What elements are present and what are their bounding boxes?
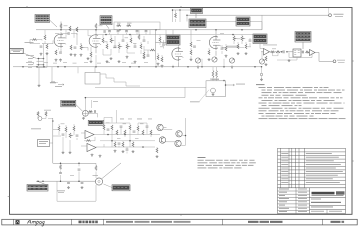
- wire heater res: [56, 81, 58, 83]
- resistor R6: [69, 26, 71, 31]
- junction reverb run: [172, 9, 174, 11]
- wire cathode V1A: [59, 48, 62, 52]
- wire return feed: [50, 130, 62, 144]
- wire stubs fx cluster: [53, 124, 157, 150]
- Ampeg logo glyph: [16, 220, 20, 224]
- wire speaker line: [187, 14, 329, 16]
- wire stubs heater row: [96, 55, 224, 67]
- capacitor C25 fx: [118, 143, 121, 144]
- junction jack 4: [43, 64, 45, 66]
- ground fx 6: [132, 150, 135, 153]
- resistor R18: [140, 44, 142, 49]
- junction output 2: [286, 51, 288, 53]
- value label fx 5: [117, 137, 121, 140]
- capacitor C9: [143, 40, 146, 41]
- wire speaker drop: [186, 15, 188, 21]
- capacitor C6 mid: [114, 46, 117, 47]
- wire stubs input stage: [45, 30, 91, 51]
- value label row 6: [97, 62, 101, 65]
- label jack text 2: [26, 61, 34, 64]
- fx riser marks 3: [137, 118, 142, 121]
- value label output: [272, 48, 276, 51]
- label box TUBE V2: [166, 35, 180, 45]
- resistor R13 reverb feed: [175, 13, 177, 18]
- triode V2A: [172, 48, 181, 60]
- value label row 5: [84, 61, 88, 64]
- label box REVERB TANK: [191, 8, 203, 14]
- legend text block: [198, 157, 256, 168]
- ground extra B: [143, 56, 146, 59]
- value label row 7: [106, 61, 110, 64]
- junction din: [52, 120, 54, 122]
- triode V4 half: [211, 88, 216, 93]
- ground heater A: [38, 84, 41, 87]
- junction heater 0: [22, 66, 24, 68]
- resistor R52: [306, 51, 309, 53]
- wire vertical feed V2: [155, 30, 157, 60]
- capacitor C27 interstage: [108, 31, 111, 32]
- value label row 10: [144, 61, 148, 64]
- fx riser marks: [120, 118, 124, 121]
- resistor R49: [271, 51, 275, 53]
- resistor R34: [65, 127, 67, 132]
- wire footswitch aux: [91, 100, 93, 108]
- resistor R54 fx: [122, 142, 124, 147]
- junction heater row dot 2: [64, 66, 66, 68]
- wire tank pointer: [104, 184, 113, 188]
- resistor R38: [111, 125, 113, 130]
- chassis box jacks: [114, 22, 160, 30]
- wire J1 pointer: [23, 53, 36, 58]
- wire output stubs: [273, 52, 298, 60]
- resistor R26 cathode V3: [208, 50, 210, 55]
- label box POWER SUPPLY: [27, 185, 48, 192]
- resistor R11 jack network: [117, 25, 122, 27]
- triode V1A: [54, 34, 63, 46]
- wire dropper: [61, 163, 80, 181]
- callout box J1 label: [10, 48, 23, 53]
- tank label text: [93, 174, 99, 177]
- panel pot REVERB: [212, 57, 217, 62]
- capacitor C15: [62, 134, 65, 135]
- connector J2 tip contact: [28, 64, 44, 65]
- page number: [331, 221, 341, 223]
- value label row 1: [44, 61, 48, 64]
- resistor R21 grid: [157, 55, 159, 60]
- wire center tap arrow: [226, 84, 235, 86]
- resistor R55 fx: [132, 142, 134, 147]
- wire fx mid rail: [100, 140, 155, 142]
- capacitor C32: [162, 44, 165, 45]
- op-amp U1B reverb recovery: [87, 144, 96, 152]
- value label row 2: [53, 62, 57, 65]
- capacitor C17: [107, 129, 110, 130]
- capacitor C23: [303, 51, 304, 54]
- ground VR3: [118, 60, 121, 63]
- potentiometer VR2 treble: [110, 38, 112, 43]
- junction heater row dot 4: [155, 66, 157, 68]
- capacitor C21 filter: [59, 173, 62, 174]
- resistor R35: [73, 126, 75, 131]
- resistor R15: [106, 44, 108, 49]
- capacitor C20: [146, 126, 149, 127]
- junction jack 1: [38, 58, 40, 60]
- value label fx 3: [140, 123, 144, 126]
- panel pot DWELL: [195, 58, 200, 63]
- junction bus 2: [95, 29, 97, 31]
- value label fx 4: [163, 126, 167, 129]
- value label row 8: [122, 61, 126, 64]
- label heater voltage: [212, 78, 220, 81]
- resistor R12 jack network: [127, 25, 132, 27]
- connector J3 reverb return: [38, 140, 50, 147]
- value label fx 2: [123, 123, 127, 126]
- wire V2A plate: [156, 43, 179, 67]
- label box RELAY: [88, 120, 103, 125]
- wire reverb text run: [222, 47, 244, 49]
- ground R15: [106, 60, 109, 63]
- notes text block: [256, 84, 346, 119]
- wire power bottom: [57, 181, 96, 201]
- capacitor C31 interstage: [145, 31, 148, 32]
- resistor R23 plate V2A: [172, 36, 174, 41]
- terminal speaker out: [329, 14, 332, 17]
- junction R8: [76, 29, 78, 31]
- wire output left vertical: [261, 15, 263, 30]
- ground tone 3: [126, 56, 129, 59]
- reverb tank transducer: [95, 178, 102, 185]
- wire V1A plate to bus: [60, 22, 62, 30]
- label box INPUT JACKS: [35, 15, 50, 23]
- resistor R8: [76, 27, 78, 32]
- potentiometer VR1 gain: [80, 45, 82, 50]
- wire heater droppers: [213, 67, 217, 81]
- wire V1B plate: [95, 30, 97, 53]
- company logo block ST LOUIS MUSIC: [312, 192, 335, 195]
- wire interstage stubs: [110, 30, 147, 35]
- label jack network: [117, 22, 121, 25]
- ground fx 4: [114, 150, 117, 153]
- wire tone row bottom: [103, 49, 141, 55]
- wire heater bus: [13, 66, 262, 68]
- wire opamp inputs: [81, 133, 100, 147]
- ground R27: [225, 55, 228, 58]
- wire B+ rail: [95, 86, 206, 88]
- junction power 1: [37, 180, 39, 182]
- value label driver: [197, 39, 201, 42]
- junction bus 7: [241, 29, 243, 31]
- wire VR1 tap: [77, 33, 88, 51]
- ground R26: [208, 58, 211, 61]
- triode V3: [209, 37, 218, 49]
- capacitor C16: [76, 135, 79, 136]
- junction bus 4: [155, 29, 157, 31]
- IC U3 line driver: [293, 49, 301, 57]
- connector DIN cluster: [38, 117, 42, 121]
- ground input network: [46, 52, 49, 55]
- wire recovery links: [59, 131, 77, 151]
- ground DWELL: [197, 66, 200, 69]
- ground R21: [157, 63, 160, 66]
- wire fx out: [163, 118, 185, 145]
- ground mixer 2: [245, 52, 248, 55]
- op-amp U2B: [310, 50, 316, 56]
- value label tone 1: [104, 41, 108, 44]
- ground fx triangle 1: [91, 154, 94, 157]
- resistor R5 cathode V1A: [55, 50, 57, 55]
- ground R51: [265, 63, 268, 66]
- resistor R50: [276, 51, 280, 53]
- value label V2: [160, 46, 164, 49]
- capacitor C28 interstage: [117, 31, 120, 32]
- wire input jack to grid: [30, 44, 44, 59]
- junction fx mid 1: [111, 140, 113, 142]
- value label row 9: [131, 62, 135, 65]
- wire presence drop: [261, 67, 263, 78]
- capacitor C23 bypass: [67, 183, 70, 184]
- wire output chain: [261, 51, 310, 54]
- drawing number B-312E: [79, 221, 82, 224]
- resistor R51 below: [265, 56, 267, 61]
- ground V4: [212, 93, 215, 96]
- wire jack columns: [39, 59, 44, 68]
- rect aux block: [85, 73, 100, 85]
- wire V3 links: [209, 44, 226, 54]
- ground R22: [161, 65, 164, 68]
- junction heater 9: [261, 66, 263, 68]
- value label tone 3: [125, 37, 129, 40]
- connector J1 tip contact: [28, 57, 44, 58]
- resistor R4 plate V1A: [60, 24, 62, 29]
- terminal line out jack: [333, 60, 336, 63]
- junction heater row dot 3: [95, 66, 97, 68]
- ground footswitch: [82, 117, 85, 120]
- wire tank diagonal: [102, 163, 121, 179]
- junction bus 6: [215, 29, 217, 31]
- capacitor C14: [95, 110, 96, 113]
- heater text: [55, 85, 62, 88]
- capacitor C11: [193, 46, 196, 47]
- ground V1B cathode: [90, 60, 93, 63]
- wire V3 plate: [215, 30, 217, 56]
- wire C22: [78, 172, 80, 182]
- transistor Q3: [176, 131, 182, 137]
- junction fx bus 2: [124, 134, 126, 136]
- heater arrow: [58, 84, 64, 86]
- wire V1B out: [91, 47, 96, 60]
- wire supply mid rail: [53, 162, 96, 164]
- resistor R42: [137, 126, 139, 131]
- wire inter-box run: [206, 22, 262, 30]
- junction heater 7: [223, 66, 225, 68]
- resistor R53 fx: [114, 142, 116, 147]
- label box LINE OUT: [295, 32, 311, 43]
- ground C4: [74, 54, 77, 57]
- wire top reverb run: [173, 10, 191, 22]
- op-amp U2A: [264, 49, 270, 56]
- resistor R9 plate V1B: [95, 24, 97, 29]
- junction heater row dot 5: [172, 66, 174, 68]
- transistor Q2: [159, 137, 165, 143]
- value label V3: [220, 32, 224, 35]
- wire grid link: [30, 40, 53, 44]
- resistor R59 din: [37, 112, 39, 117]
- op-amp U1A reverb recovery: [85, 131, 94, 139]
- wire R23: [172, 30, 174, 43]
- value label R9: [99, 25, 103, 28]
- resistor R14: [102, 38, 104, 43]
- wire rail mid: [96, 34, 262, 36]
- wire presence: [261, 52, 263, 58]
- resistor R39: [116, 130, 118, 135]
- wire channel out: [260, 44, 264, 49]
- wire bus staircase: [95, 67, 140, 86]
- fx riser marks 2: [128, 118, 132, 121]
- ground cathode V1A: [55, 59, 58, 62]
- fx riser marks 4: [148, 118, 152, 121]
- resistor R25: [190, 50, 192, 55]
- resistor R45: [156, 148, 158, 153]
- wire din links: [37, 116, 53, 119]
- resistor R37: [103, 125, 105, 130]
- junction B+ step: [223, 80, 225, 82]
- resistor R3 input: [46, 44, 48, 49]
- wire second row: [144, 50, 156, 55]
- junction fx bus 3: [142, 146, 144, 148]
- junction heater 5: [187, 66, 189, 68]
- value label fx 1: [106, 122, 110, 125]
- resistor R20: [143, 52, 145, 57]
- value label row 4: [73, 62, 77, 65]
- potentiometer VR3 middle: [118, 44, 120, 49]
- reverb return text: [31, 128, 41, 131]
- junction rail mid 1: [105, 34, 107, 36]
- connector P2 footswitch jack: [83, 110, 89, 116]
- label jack text 1: [26, 54, 34, 57]
- potentiometer VR6 treble 2: [241, 36, 243, 41]
- wire fx verticals: [104, 127, 147, 147]
- wire tone stack links: [103, 30, 144, 46]
- wire R58 stub: [160, 35, 164, 49]
- wire coupling: [61, 32, 77, 35]
- capacitor C29 interstage: [125, 31, 128, 32]
- resistor R58: [159, 37, 161, 42]
- capacitor C24 bypass: [81, 183, 84, 184]
- junction reverb run 2: [179, 9, 181, 11]
- resistor R56 heater dropper: [212, 71, 214, 78]
- value label mix 1: [237, 38, 241, 41]
- ground output mid: [288, 59, 291, 62]
- resistor R19: [150, 49, 155, 51]
- label box DRIVER: [189, 19, 206, 28]
- junction rail mid 3: [232, 34, 234, 36]
- resistor R43: [142, 130, 144, 135]
- value label tone 4: [133, 42, 137, 45]
- junction heater 1: [36, 66, 38, 68]
- capacitor C19: [133, 131, 136, 132]
- Ampeg script logotype: [28, 220, 45, 226]
- wire tank feed: [95, 163, 97, 178]
- wire driver column: [190, 30, 192, 58]
- terminal presence: [260, 73, 263, 76]
- junction mid rail 2: [78, 163, 80, 165]
- capacitor C3 coupling: [68, 32, 69, 35]
- potentiometer VR7 reverb level: [69, 133, 71, 138]
- junction jack 2: [43, 58, 45, 60]
- resistor R27: [225, 46, 227, 51]
- capacitor C18: [120, 126, 123, 127]
- rect virtual center box: [206, 81, 226, 97]
- bottom title strip: [2, 219, 357, 225]
- ground C1: [40, 53, 43, 56]
- capacitor C5 treble: [104, 30, 105, 33]
- junction bus 5: [195, 29, 197, 31]
- potentiometer VR5 volume 2: [233, 36, 235, 41]
- junction output 1: [281, 51, 283, 53]
- wire main bus B+: [36, 29, 262, 31]
- junction heater 2: [43, 66, 45, 68]
- ground fx triangle 2: [99, 155, 102, 158]
- wire to line out jack: [315, 53, 333, 62]
- resistor R24: [190, 42, 192, 47]
- junction heater 6: [201, 66, 203, 68]
- wire heater drop A: [39, 67, 52, 84]
- wire ref line angled: [199, 90, 209, 102]
- label box FOOTSWITCH: [61, 100, 76, 107]
- value label recovery: [61, 123, 65, 126]
- junction power 2: [42, 180, 44, 182]
- capacitor C7 bass: [122, 40, 125, 41]
- capacitor C1 input: [40, 46, 43, 47]
- wire footswitch feed: [84, 98, 86, 111]
- capacitor C22: [283, 50, 284, 53]
- triode V1B: [89, 35, 98, 47]
- wire mixer links: [234, 35, 250, 47]
- ground R7: [70, 53, 73, 56]
- capacitor C8: [134, 46, 137, 47]
- ground C2: [59, 59, 62, 62]
- label box MIXER: [236, 17, 250, 26]
- wire feedback loop: [289, 53, 312, 58]
- wire long return rail: [85, 87, 185, 97]
- junction fx bus: [107, 134, 109, 136]
- junction center tap: [225, 84, 227, 86]
- resistor R22: [161, 57, 163, 62]
- speaker out text: [334, 13, 344, 16]
- ground MASTER: [231, 66, 234, 69]
- resistor R44: [150, 130, 152, 135]
- ground C8: [134, 61, 137, 64]
- resistor R36 feedback: [86, 140, 91, 142]
- resistor R41: [129, 125, 131, 130]
- value label tone 2: [113, 47, 117, 50]
- resistor R7: [70, 45, 72, 50]
- connector J1 ring contact: [28, 60, 44, 62]
- wire fx inner links: [115, 141, 133, 154]
- junction mid rail 1: [60, 163, 62, 165]
- ground C23: [67, 186, 70, 189]
- value label row 3: [63, 61, 67, 64]
- ground fx 3: [156, 155, 159, 158]
- resistor R16: [130, 38, 132, 43]
- resistor R48 tank feed: [95, 166, 97, 171]
- ground mixer: [237, 52, 240, 55]
- junction heater 8: [254, 66, 256, 68]
- title block: [278, 188, 346, 214]
- din text: [44, 109, 51, 112]
- junction heater row dots: [57, 66, 59, 68]
- resistor R1 grid stopper: [32, 39, 37, 41]
